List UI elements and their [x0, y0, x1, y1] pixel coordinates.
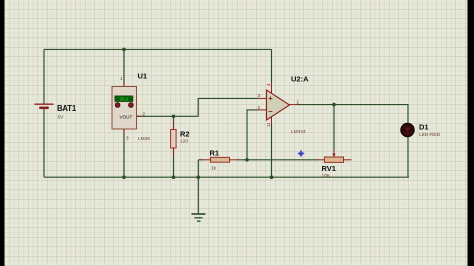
svg-text:1: 1: [120, 76, 123, 81]
node minus input junction: [245, 158, 249, 162]
blue origin marker: [297, 150, 304, 157]
node U1 pin3 rail junction: [122, 175, 126, 179]
wire opamp minus input: [247, 110, 258, 160]
svg-text:2: 2: [143, 112, 146, 117]
node VOUT R2 junction: [172, 115, 176, 119]
wire battery vertical: [43, 49, 45, 103]
wire output to LED: [298, 105, 409, 124]
svg-text:U1: U1: [138, 72, 148, 81]
wire R2 vertical: [173, 116, 175, 129]
svg-text:RV1: RV1: [322, 164, 336, 173]
node R2 rail junction: [172, 175, 176, 179]
svg-text:LM324: LM324: [291, 129, 306, 135]
svg-text:R2: R2: [180, 130, 190, 139]
svg-text:LM35: LM35: [138, 136, 150, 142]
right black bar: [468, 0, 474, 266]
svg-text:R1: R1: [210, 149, 220, 158]
svg-text:120: 120: [180, 139, 188, 145]
op-amp U2:A: [258, 75, 310, 136]
wire VOUT to opamp plus input: [137, 98, 259, 116]
LED D1: [401, 123, 441, 139]
ground: [192, 214, 206, 221]
wire U1 pin1 vertical: [123, 49, 125, 86]
svg-text:3: 3: [258, 93, 261, 98]
left black bar: [0, 0, 5, 266]
U1 LM35: [112, 72, 150, 143]
svg-text:2: 2: [258, 105, 261, 110]
svg-text:1: 1: [297, 100, 300, 105]
svg-text:VOUT: VOUT: [120, 114, 133, 119]
wire RV1 wiper vertical: [333, 105, 335, 151]
node top junction: [122, 48, 126, 52]
wire U1 pin3 vertical: [123, 129, 125, 177]
wire opamp pin4 vertical: [271, 49, 273, 82]
svg-text:1k: 1k: [211, 166, 217, 172]
battery BAT1: [35, 104, 77, 121]
resistor R1: [201, 149, 239, 172]
wire LED bottom to rail: [407, 137, 409, 178]
wire R1 left down to ground: [197, 160, 199, 214]
svg-text:LED-RED: LED-RED: [419, 132, 441, 138]
potentiometer RV1: [317, 150, 352, 179]
resistor R2: [171, 121, 190, 156]
wire top rail: [44, 48, 272, 50]
wire R1 RV1 horizontal: [198, 159, 202, 161]
svg-text:U2:A: U2:A: [291, 75, 309, 84]
svg-text:D1: D1: [419, 123, 429, 132]
svg-text:11: 11: [266, 122, 271, 127]
node ground rail junction: [197, 175, 201, 179]
wire bottom rail: [44, 176, 409, 178]
svg-text:5V: 5V: [58, 115, 65, 121]
svg-text:3: 3: [126, 136, 129, 141]
node pin11 rail junction: [270, 175, 274, 179]
svg-text:BAT1: BAT1: [57, 104, 77, 113]
node output RV1 junction: [332, 103, 336, 107]
svg-text:4: 4: [266, 83, 271, 86]
wire opamp pin11 vertical: [271, 125, 273, 178]
svg-text:36.0: 36.0: [120, 96, 129, 101]
svg-text:10K: 10K: [322, 173, 331, 179]
